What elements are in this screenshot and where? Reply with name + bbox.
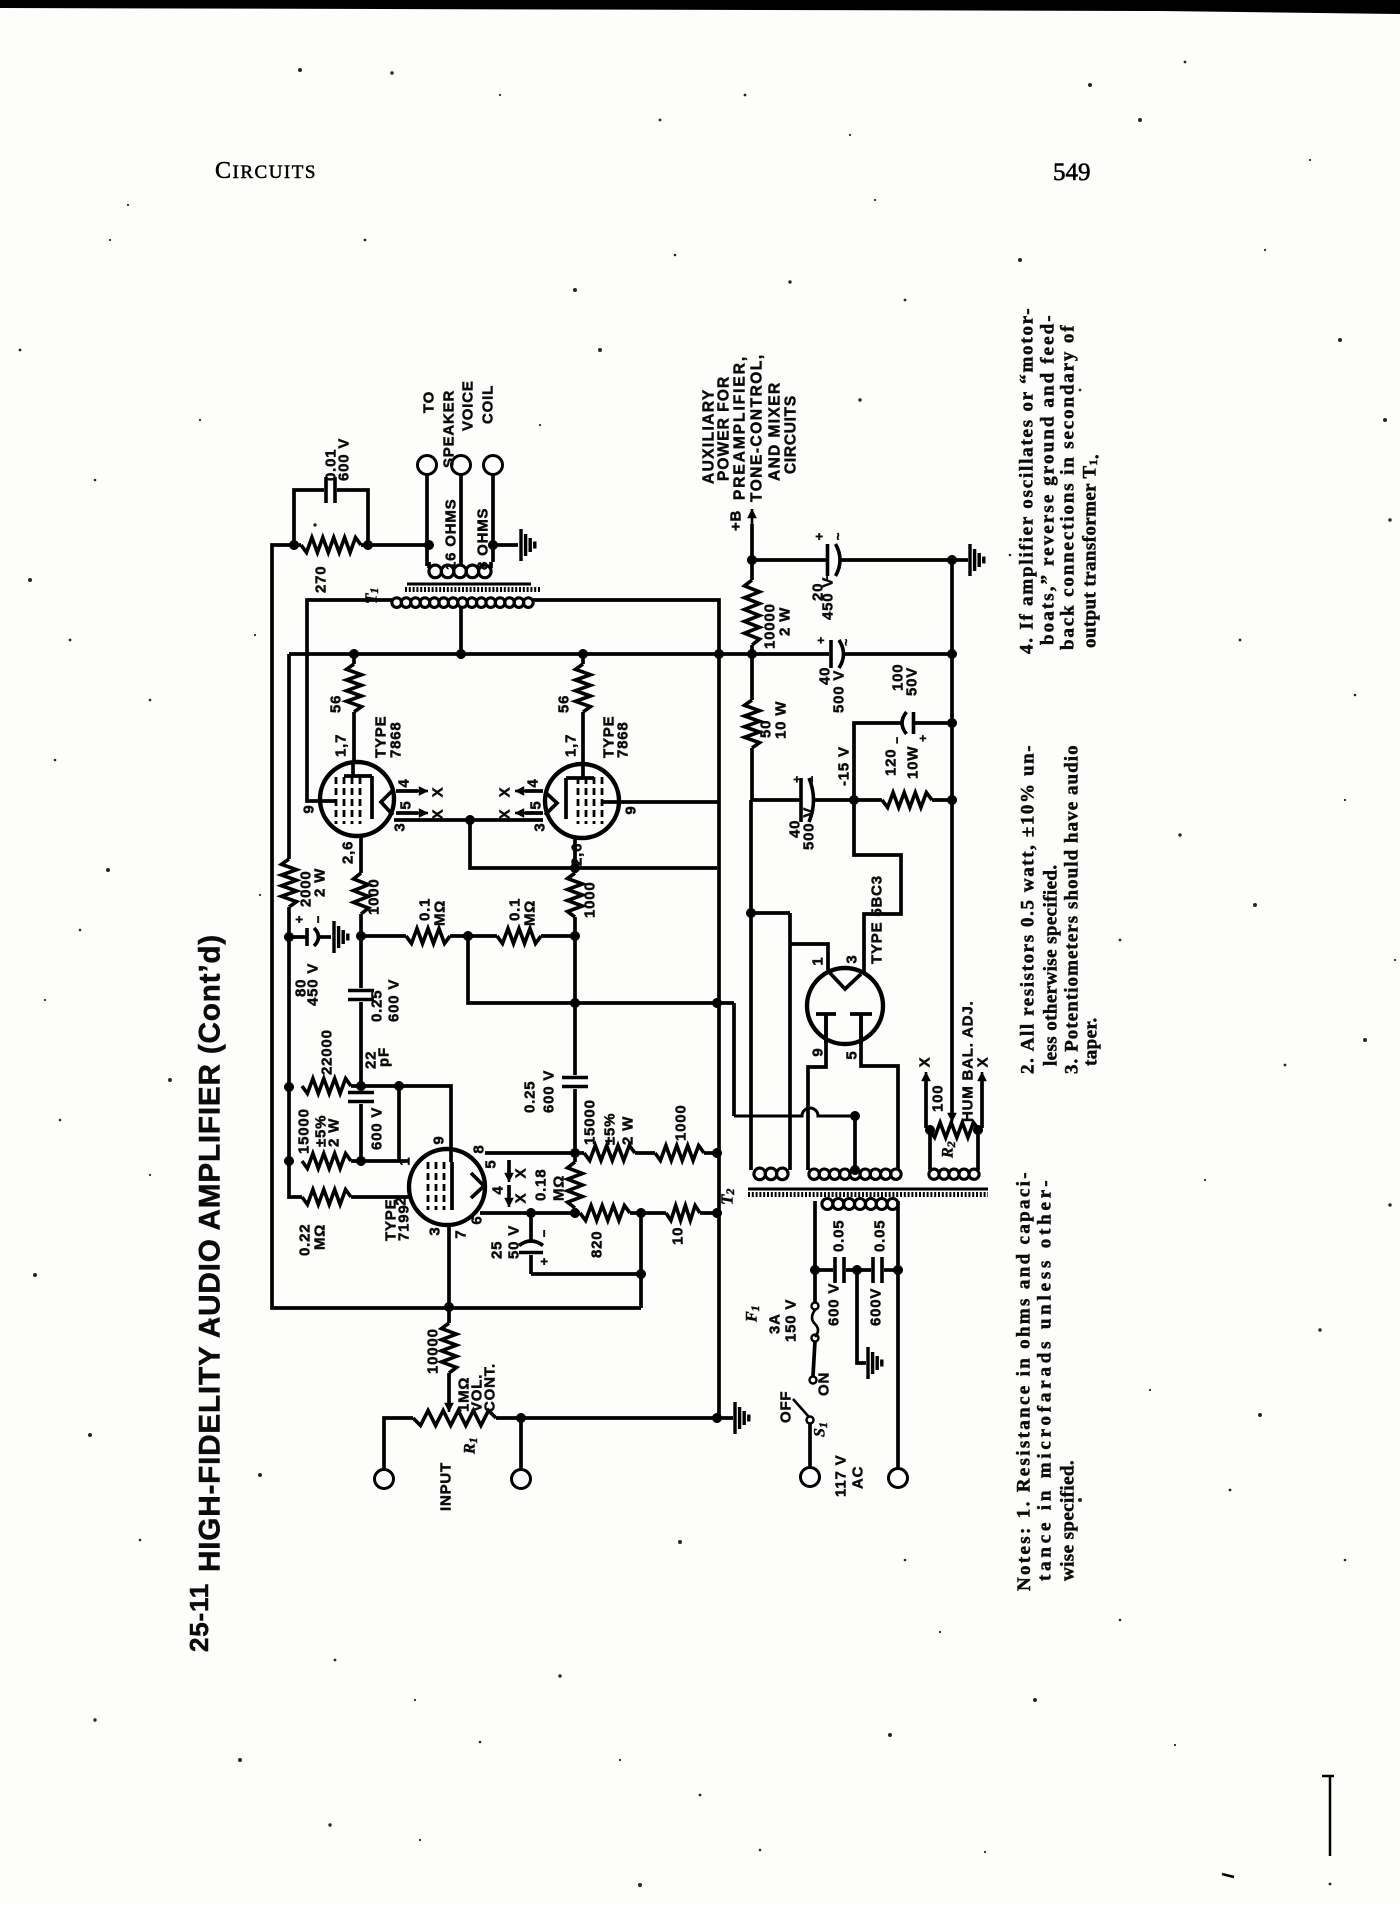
svg-text:5: 5 <box>483 1159 500 1168</box>
svg-text:56: 56 <box>556 695 573 713</box>
svg-text:600V: 600V <box>868 1288 885 1326</box>
svg-text:~: ~ <box>831 532 846 540</box>
svg-text:CIRCUITS: CIRCUITS <box>783 395 800 474</box>
svg-text:+B: +B <box>728 510 745 531</box>
svg-text:−: − <box>820 573 834 581</box>
svg-text:MΩ: MΩ <box>551 1175 568 1201</box>
svg-text:X: X <box>917 1057 934 1068</box>
svg-text:7868: 7868 <box>388 721 405 758</box>
svg-text:9: 9 <box>623 805 640 814</box>
svg-text:COIL: COIL <box>480 385 497 424</box>
svg-text:back connections in secondary: back connections in secondary of <box>1058 325 1079 650</box>
svg-text:−: − <box>537 1229 552 1237</box>
svg-text:X: X <box>497 809 514 820</box>
svg-text:10W: 10W <box>905 746 922 779</box>
svg-text:1: 1 <box>397 1156 414 1165</box>
svg-text:10000: 10000 <box>425 1328 442 1374</box>
svg-text:±5%: ±5% <box>602 1113 619 1145</box>
svg-text:+: + <box>292 915 307 923</box>
svg-text:100: 100 <box>930 1085 947 1112</box>
svg-text:~: ~ <box>839 638 853 646</box>
svg-text:X: X <box>975 1057 992 1068</box>
svg-text:4: 4 <box>396 778 413 787</box>
svg-text:+: + <box>812 532 827 540</box>
svg-text:wise specified.: wise specified. <box>1058 1460 1079 1581</box>
svg-text:3: 3 <box>532 822 549 831</box>
svg-text:3: 3 <box>392 822 409 831</box>
svg-text:SPEAKER: SPEAKER <box>441 390 458 468</box>
svg-text:2 W: 2 W <box>777 607 794 636</box>
svg-text:150 V: 150 V <box>783 1299 800 1342</box>
svg-text:120: 120 <box>883 749 900 776</box>
svg-text:TONE-CONTROL,: TONE-CONTROL, <box>749 354 766 502</box>
svg-text:X: X <box>513 1193 530 1204</box>
svg-text:9: 9 <box>301 804 318 813</box>
svg-text:117 V: 117 V <box>833 1455 850 1497</box>
svg-text:+: + <box>916 734 930 742</box>
svg-text:10: 10 <box>670 1227 687 1245</box>
svg-text:16 OHMS: 16 OHMS <box>443 499 460 570</box>
svg-text:0.05: 0.05 <box>872 1220 889 1252</box>
svg-text:HIGH-FIDELITY AUDIO AMPLIFIER: HIGH-FIDELITY AUDIO AMPLIFIER (Cont’d) <box>194 934 227 1572</box>
svg-text:−: − <box>311 915 326 923</box>
svg-text:7868: 7868 <box>615 721 632 758</box>
svg-text:pF: pF <box>376 1047 393 1067</box>
svg-text:AC: AC <box>850 1466 867 1489</box>
svg-text:8 OHMS: 8 OHMS <box>475 508 492 570</box>
svg-text:3A: 3A <box>767 1313 784 1334</box>
svg-text:50 V: 50 V <box>506 1225 523 1259</box>
svg-text:+: + <box>537 1257 552 1265</box>
svg-text:OFF: OFF <box>778 1391 795 1423</box>
svg-text:25: 25 <box>489 1241 506 1259</box>
svg-text:MΩ: MΩ <box>432 900 449 926</box>
svg-text:less otherwise specified.: less otherwise specified. <box>1041 864 1062 1066</box>
svg-text:-15 V: -15 V <box>836 746 853 786</box>
svg-text:2. All resistors 0.5 watt, ±10: 2. All resistors 0.5 watt, ±10% un- <box>1018 745 1039 1074</box>
svg-text:X: X <box>513 1168 530 1179</box>
svg-text:0.05: 0.05 <box>831 1220 848 1252</box>
svg-text:549: 549 <box>1053 159 1091 186</box>
svg-text:9: 9 <box>810 1047 827 1056</box>
svg-text:22000: 22000 <box>319 1029 336 1075</box>
svg-text:1000: 1000 <box>366 878 383 915</box>
svg-text:2,6: 2,6 <box>340 841 357 864</box>
svg-text:4: 4 <box>490 1185 507 1194</box>
svg-text:8: 8 <box>471 1144 488 1153</box>
svg-text:1: 1 <box>810 956 827 965</box>
svg-text:50V: 50V <box>904 667 921 696</box>
svg-text:2 W: 2 W <box>620 1116 637 1145</box>
svg-text:10 W: 10 W <box>773 701 790 739</box>
svg-text:5: 5 <box>528 800 545 809</box>
svg-text:15000: 15000 <box>296 1108 313 1154</box>
svg-text:output transformer T1.: output transformer T1. <box>1080 454 1104 648</box>
svg-text:TYPE 5BC3: TYPE 5BC3 <box>869 875 886 964</box>
svg-text:0.25: 0.25 <box>369 990 386 1022</box>
svg-text:−: − <box>805 775 819 783</box>
svg-text:X: X <box>430 787 447 798</box>
svg-text:6: 6 <box>469 1215 486 1224</box>
svg-text:VOICE: VOICE <box>460 380 477 431</box>
svg-text:MΩ: MΩ <box>312 1224 329 1250</box>
svg-text:AND MIXER: AND MIXER <box>767 382 784 481</box>
svg-text:POWER FOR: POWER FOR <box>716 376 733 481</box>
svg-text:MΩ: MΩ <box>522 900 539 926</box>
svg-text:TO: TO <box>421 391 438 413</box>
svg-text:15000: 15000 <box>582 1099 599 1145</box>
svg-text:25-11: 25-11 <box>184 1583 214 1652</box>
svg-text:4. If amplifier oscillates or: 4. If amplifier oscillates or “motor- <box>1017 308 1038 654</box>
svg-text:0.25: 0.25 <box>522 1081 539 1113</box>
svg-text:5: 5 <box>398 800 415 809</box>
svg-text:2,6: 2,6 <box>569 843 586 866</box>
svg-text:270: 270 <box>313 566 330 593</box>
svg-text:boats,” reverse ground and fee: boats,” reverse ground and feed- <box>1038 315 1059 645</box>
svg-text:450 V: 450 V <box>305 963 322 1006</box>
svg-text:3. Potentiometers should have: 3. Potentiometers should have audio <box>1062 745 1083 1074</box>
svg-text:600 V: 600 V <box>541 1070 558 1113</box>
svg-text:500 V: 500 V <box>831 670 848 713</box>
svg-text:600 V: 600 V <box>386 979 403 1022</box>
svg-text:taper.: taper. <box>1081 1017 1102 1066</box>
svg-text:5: 5 <box>844 1050 861 1059</box>
svg-text:INPUT: INPUT <box>438 1462 455 1511</box>
svg-text:500 V: 500 V <box>801 807 818 850</box>
svg-text:56: 56 <box>328 695 345 713</box>
svg-text:1000: 1000 <box>582 881 599 918</box>
svg-text:+: + <box>814 636 828 644</box>
svg-text:600 V: 600 V <box>826 1283 843 1326</box>
svg-text:2 W: 2 W <box>312 868 329 897</box>
svg-text:−: − <box>890 736 904 744</box>
svg-text:600 V: 600 V <box>336 438 353 481</box>
svg-text:7: 7 <box>453 1229 470 1238</box>
svg-text:7199: 7199 <box>396 1204 413 1241</box>
svg-text:PREAMPLIFIER,: PREAMPLIFIER, <box>732 356 749 500</box>
svg-text:ON: ON <box>816 1372 833 1396</box>
svg-text:3: 3 <box>427 1226 444 1235</box>
svg-text:1,7: 1,7 <box>563 734 580 757</box>
svg-text:4: 4 <box>525 778 542 787</box>
svg-text:9: 9 <box>431 1135 448 1144</box>
svg-text:1,7: 1,7 <box>333 734 350 757</box>
svg-text:820: 820 <box>589 1231 606 1258</box>
svg-text:CIRCUITS: CIRCUITS <box>215 158 317 184</box>
svg-text:+: + <box>790 775 804 783</box>
svg-text:X: X <box>430 809 447 820</box>
svg-text:1000: 1000 <box>673 1104 690 1141</box>
svg-text:600 V: 600 V <box>369 1107 386 1150</box>
svg-text:0.18: 0.18 <box>533 1169 550 1201</box>
svg-text:X: X <box>497 787 514 798</box>
svg-text:3: 3 <box>844 954 861 963</box>
svg-text:2: 2 <box>393 1196 410 1205</box>
svg-text:2 W: 2 W <box>326 1118 343 1147</box>
svg-text:450 V: 450 V <box>820 577 837 620</box>
svg-text:CONT.: CONT. <box>482 1363 499 1412</box>
